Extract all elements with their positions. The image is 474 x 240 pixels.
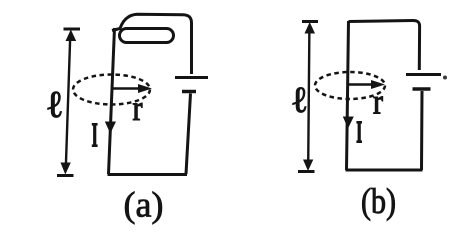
dotted ellipse (amperian loop, circuit b) [315,72,385,99]
label I (circuit b) [356,122,362,142]
wire: bottom conductor (circuit b) [346,169,423,172]
wire: top loop and right side down to battery (circuit a) [112,14,192,74]
dimension arrow length l (circuit a) [57,29,80,176]
wire: right conductor below battery (circuit b) [420,91,424,170]
label (a) [125,192,162,225]
battery B1 long plate (circuit a) [175,76,208,79]
radius arrow r (circuit a) [113,84,152,93]
wire: bottom conductor (circuit a) [108,173,188,176]
battery B2 short plate (circuit b) [413,87,431,91]
label (b) [362,188,394,221]
current arrowhead I (circuit a) [105,122,116,134]
wire: left conductor (circuit b) [347,21,349,170]
label r (circuit b) [374,97,383,114]
label I (circuit a) [92,124,98,146]
ink speck right of battery plate [443,76,447,80]
coil loop (stadium shape, circuit a) [120,29,174,43]
wire: top conductor (circuit b) [349,21,420,71]
current arrowhead I (circuit b) [343,117,354,129]
battery B1 short plate (circuit a) [182,90,196,94]
dimension arrow length l (circuit b) [298,22,318,172]
wire: right conductor below battery (circuit a) [186,94,191,175]
battery B2 long plate (circuit b) [406,73,441,76]
label l (script ell, circuit a) [48,92,62,118]
label r (circuit a) [133,103,142,120]
radius arrow r (circuit b) [348,80,385,89]
wire: left conductor (circuit a) [109,28,115,174]
label l (script ell, circuit b) [293,87,306,112]
dotted ellipse (amperian loop, circuit a) [73,75,150,105]
